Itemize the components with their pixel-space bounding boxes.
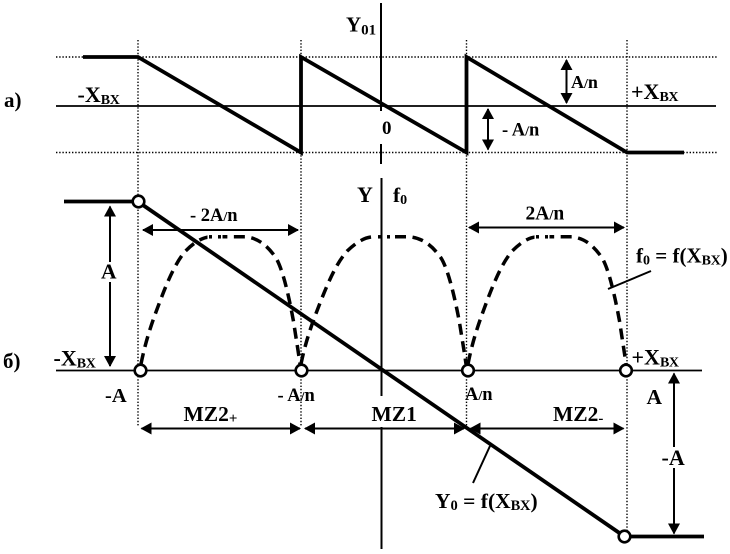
node circle at (+Xbx, 0): [620, 365, 632, 377]
svg-text:Y: Y: [357, 182, 373, 207]
dashed curve f0 hump right: [468, 237, 626, 364]
dashed curve f0 hump left: [141, 237, 300, 364]
svg-text:f0 = f(XВХ): f0 = f(XВХ): [636, 244, 728, 269]
svg-text:- 2A/n: - 2A/n: [190, 206, 238, 226]
node circle at (-A/n, 0): [296, 365, 308, 377]
svg-text:- A/n: - A/n: [278, 386, 316, 406]
dashed curve f0 hump middle: [301, 237, 466, 364]
dimension arrow 2A/n: [469, 227, 624, 229]
svg-text:-XВХ: -XВХ: [78, 82, 120, 108]
transfer line flat bottom segment: [625, 535, 705, 539]
svg-text:+XВХ: +XВХ: [631, 79, 679, 105]
svg-text:-XВХ: -XВХ: [54, 346, 96, 372]
bottom panel X axis: [56, 370, 702, 372]
dimension arrow -A/n (top panel): [487, 109, 489, 150]
white backing for label MZ1: [369, 396, 417, 427]
svg-text:-A: -A: [662, 445, 685, 470]
svg-text:A/n: A/n: [571, 72, 598, 92]
svg-text:MZ2+: MZ2+: [184, 402, 238, 427]
apex dots of left hump: [209, 235, 212, 239]
svg-text:f0: f0: [393, 183, 407, 208]
svg-text:+XВХ: +XВХ: [632, 345, 680, 371]
dimension arrow A/n (top panel): [566, 60, 568, 103]
bottom panel Y axis: [381, 178, 383, 549]
node circle at (A/n, 0): [462, 365, 474, 377]
svg-text:MZ2-: MZ2-: [553, 402, 603, 427]
apex dots of middle hump: [378, 235, 381, 239]
white backing for label A (left): [99, 262, 121, 282]
node circle at (-Xbx, 0): [135, 365, 147, 377]
node circle at (-Xbx, A): [133, 196, 145, 208]
white gap at apex of right hump: [535, 233, 550, 241]
dotted vertical guide at +Xbx: [626, 40, 628, 531]
dotted vertical guide at -Xbx: [137, 40, 139, 427]
dimension arrow MZ1: [305, 428, 464, 430]
svg-text:Y01: Y01: [346, 13, 376, 39]
sawtooth waveform Y01: [83, 57, 684, 153]
svg-text:б): б): [3, 349, 21, 373]
svg-text:а): а): [4, 88, 22, 112]
top panel Y axis tick at -A/n level: [380, 144, 382, 164]
leader line to Y0 line: [473, 446, 490, 483]
dimension arrow MZ2-: [471, 428, 624, 430]
svg-text:A: A: [101, 260, 117, 284]
transfer line flat top segment: [64, 200, 139, 204]
white gap at apex of left hump: [208, 233, 223, 241]
dotted level line -A/n (top panel): [56, 152, 718, 154]
dimension arrow -2A/n: [143, 229, 298, 231]
transfer line Y0 main descending segment: [139, 202, 625, 537]
white backing for label -A (right): [659, 447, 688, 468]
leader line to f0 curve: [608, 271, 651, 289]
svg-text:Y0 = f(XВХ): Y0 = f(XВХ): [435, 489, 538, 514]
node circle at (+Xbx, -A): [619, 531, 631, 543]
dimension arrow MZ2+: [142, 428, 301, 430]
dotted vertical guide at +A/n: [466, 40, 468, 427]
svg-text:- A/n: - A/n: [502, 121, 540, 141]
apex dots of right hump: [536, 235, 539, 239]
svg-text:0: 0: [382, 118, 392, 139]
svg-text:A: A: [647, 385, 663, 409]
dotted vertical guide at -A/n: [300, 40, 302, 427]
svg-text:A/n: A/n: [465, 385, 493, 405]
dimension arrow A (bottom left): [109, 207, 111, 367]
dimension arrow -A (bottom right): [673, 374, 675, 534]
top panel X axis: [56, 105, 716, 107]
dotted level line +A/n (top panel): [56, 56, 718, 58]
svg-text:-A: -A: [105, 385, 127, 407]
top panel Y axis: [380, 3, 382, 111]
white gap at apex of middle hump: [377, 233, 392, 241]
svg-text:MZ1: MZ1: [372, 402, 417, 426]
svg-text:2A/n: 2A/n: [526, 204, 565, 225]
